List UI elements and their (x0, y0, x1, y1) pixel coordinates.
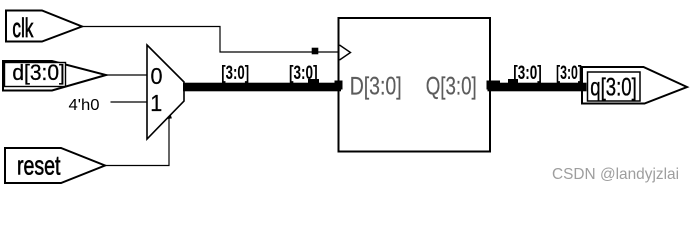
wire constant to mux input 1 (111, 101, 148, 103)
svg-text:4'h0: 4'h0 (69, 97, 100, 114)
register U1 RTL_REG box (339, 18, 491, 152)
select arrowhead on mux select pin (164, 113, 172, 119)
mux input label 1 (150, 90, 162, 116)
pin pad on register Q output (487, 81, 501, 90)
input port reset (5, 148, 105, 183)
svg-text:[3:0]: [3:0] (289, 63, 318, 84)
pin pad on register D input (335, 81, 343, 90)
svg-text:CSDN @landyjzlai: CSDN @landyjzlai (552, 166, 679, 183)
svg-text:q[3:0]: q[3:0] (590, 74, 637, 102)
svg-text:[3:0]: [3:0] (221, 63, 249, 84)
wire clk net (82, 27, 338, 53)
watermark CSDN @landyjzlai (552, 166, 679, 183)
pin label Q[3:0] of register U1 (426, 73, 477, 101)
svg-text:Q[3:0]: Q[3:0] (426, 73, 477, 101)
pin label D[3:0] of register U1 (350, 73, 402, 101)
svg-text:1: 1 (150, 90, 162, 116)
svg-text:reset: reset (17, 151, 61, 181)
input port d[3:0] (3, 60, 106, 91)
bus width label [3:0] left bus first (221, 63, 249, 84)
junction square on clk net (312, 48, 319, 55)
clock pin edge triangle of register U1 (340, 45, 351, 60)
mux input label 0 (151, 63, 163, 89)
bus width label [3:0] right bus second (556, 63, 582, 84)
junction square on Q bus (508, 79, 518, 89)
constant 4'h0 label (69, 97, 100, 114)
svg-text:clk: clk (12, 13, 33, 43)
bus wire mux output to register D (183, 83, 341, 92)
bus width label [3:0] right bus first (513, 63, 541, 84)
output port q[3:0] (582, 67, 687, 104)
bus width label [3:0] left bus second (289, 63, 318, 84)
name box of port q[3:0] (588, 72, 641, 102)
junction square on D bus (308, 79, 319, 90)
wire reset to mux select (105, 117, 169, 166)
svg-text:0: 0 (151, 63, 163, 89)
mux U2 RTL_MUX (147, 45, 184, 139)
input port clk (6, 11, 82, 44)
svg-text:[3:0]: [3:0] (513, 63, 541, 84)
wire d to mux input 0 (106, 74, 147, 76)
svg-text:[3:0]: [3:0] (556, 63, 582, 84)
svg-text:d[3:0]: d[3:0] (12, 60, 65, 85)
bus wire register Q to port q (488, 83, 587, 92)
svg-text:D[3:0]: D[3:0] (350, 73, 402, 101)
